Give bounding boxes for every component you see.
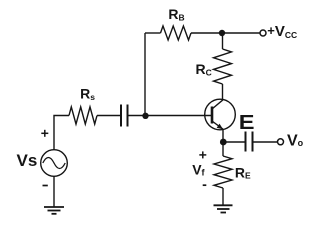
wire: base node to transistor base xyxy=(146,115,212,117)
svg-text:+VCC: +VCC xyxy=(267,23,297,40)
svg-text:Vo: Vo xyxy=(287,133,304,150)
wire: RE bottom to ground xyxy=(222,188,224,205)
node: junction dot at RB / RC / VCC rail xyxy=(219,30,225,36)
svg-text:E: E xyxy=(239,111,255,134)
capacitor (output, label E) xyxy=(246,132,253,152)
polarity - of Vf xyxy=(203,184,207,186)
wire: RC top lead from rail junction xyxy=(222,33,224,49)
resistor RC xyxy=(196,49,232,84)
resistor RE xyxy=(214,156,251,188)
wire: emitter node to output capacitor xyxy=(223,141,246,143)
node: base junction dot xyxy=(142,113,148,119)
resistor RB xyxy=(161,6,192,40)
polarity + of Vf xyxy=(199,151,206,158)
wire: emitter node down to RE xyxy=(222,142,224,156)
svg-text:Vs: Vs xyxy=(17,151,38,170)
svg-text:RB: RB xyxy=(168,6,184,23)
ground (under Vs) xyxy=(44,207,64,214)
wire: coupling capacitor to base node xyxy=(128,115,146,117)
wire: top rail left segment feeding RB xyxy=(145,32,161,34)
capacitor (coupling, input) xyxy=(121,105,128,127)
wire: left vertical from RB down to base node xyxy=(144,33,146,116)
wire: top rail from RB to +VCC terminal xyxy=(191,32,260,34)
transistor Q1 (NPN) xyxy=(205,99,236,130)
source Vs (AC) xyxy=(41,150,68,177)
svg-text:Vf: Vf xyxy=(192,162,205,178)
wire: RC bottom lead to collector xyxy=(222,84,224,100)
terminal Vo (open circle) xyxy=(278,139,284,145)
polarity - of Vs xyxy=(43,185,48,187)
wire: emitter down to emitter node xyxy=(222,129,224,142)
svg-text:RE: RE xyxy=(235,164,251,180)
wire: Rs to coupling capacitor xyxy=(97,115,121,117)
wire: output capacitor to Vo terminal xyxy=(253,141,278,143)
wire: Vs bottom to ground xyxy=(53,176,55,207)
wire: Vs top corner to Rs xyxy=(54,116,69,150)
terminal +VCC (open circle) xyxy=(260,30,266,36)
ground (under RE) xyxy=(214,205,233,212)
resistor Rs xyxy=(69,85,97,124)
svg-text:RC: RC xyxy=(196,61,212,78)
node: emitter junction dot xyxy=(220,139,227,146)
svg-text:Rs: Rs xyxy=(80,85,95,102)
polarity + of Vs xyxy=(41,130,48,137)
